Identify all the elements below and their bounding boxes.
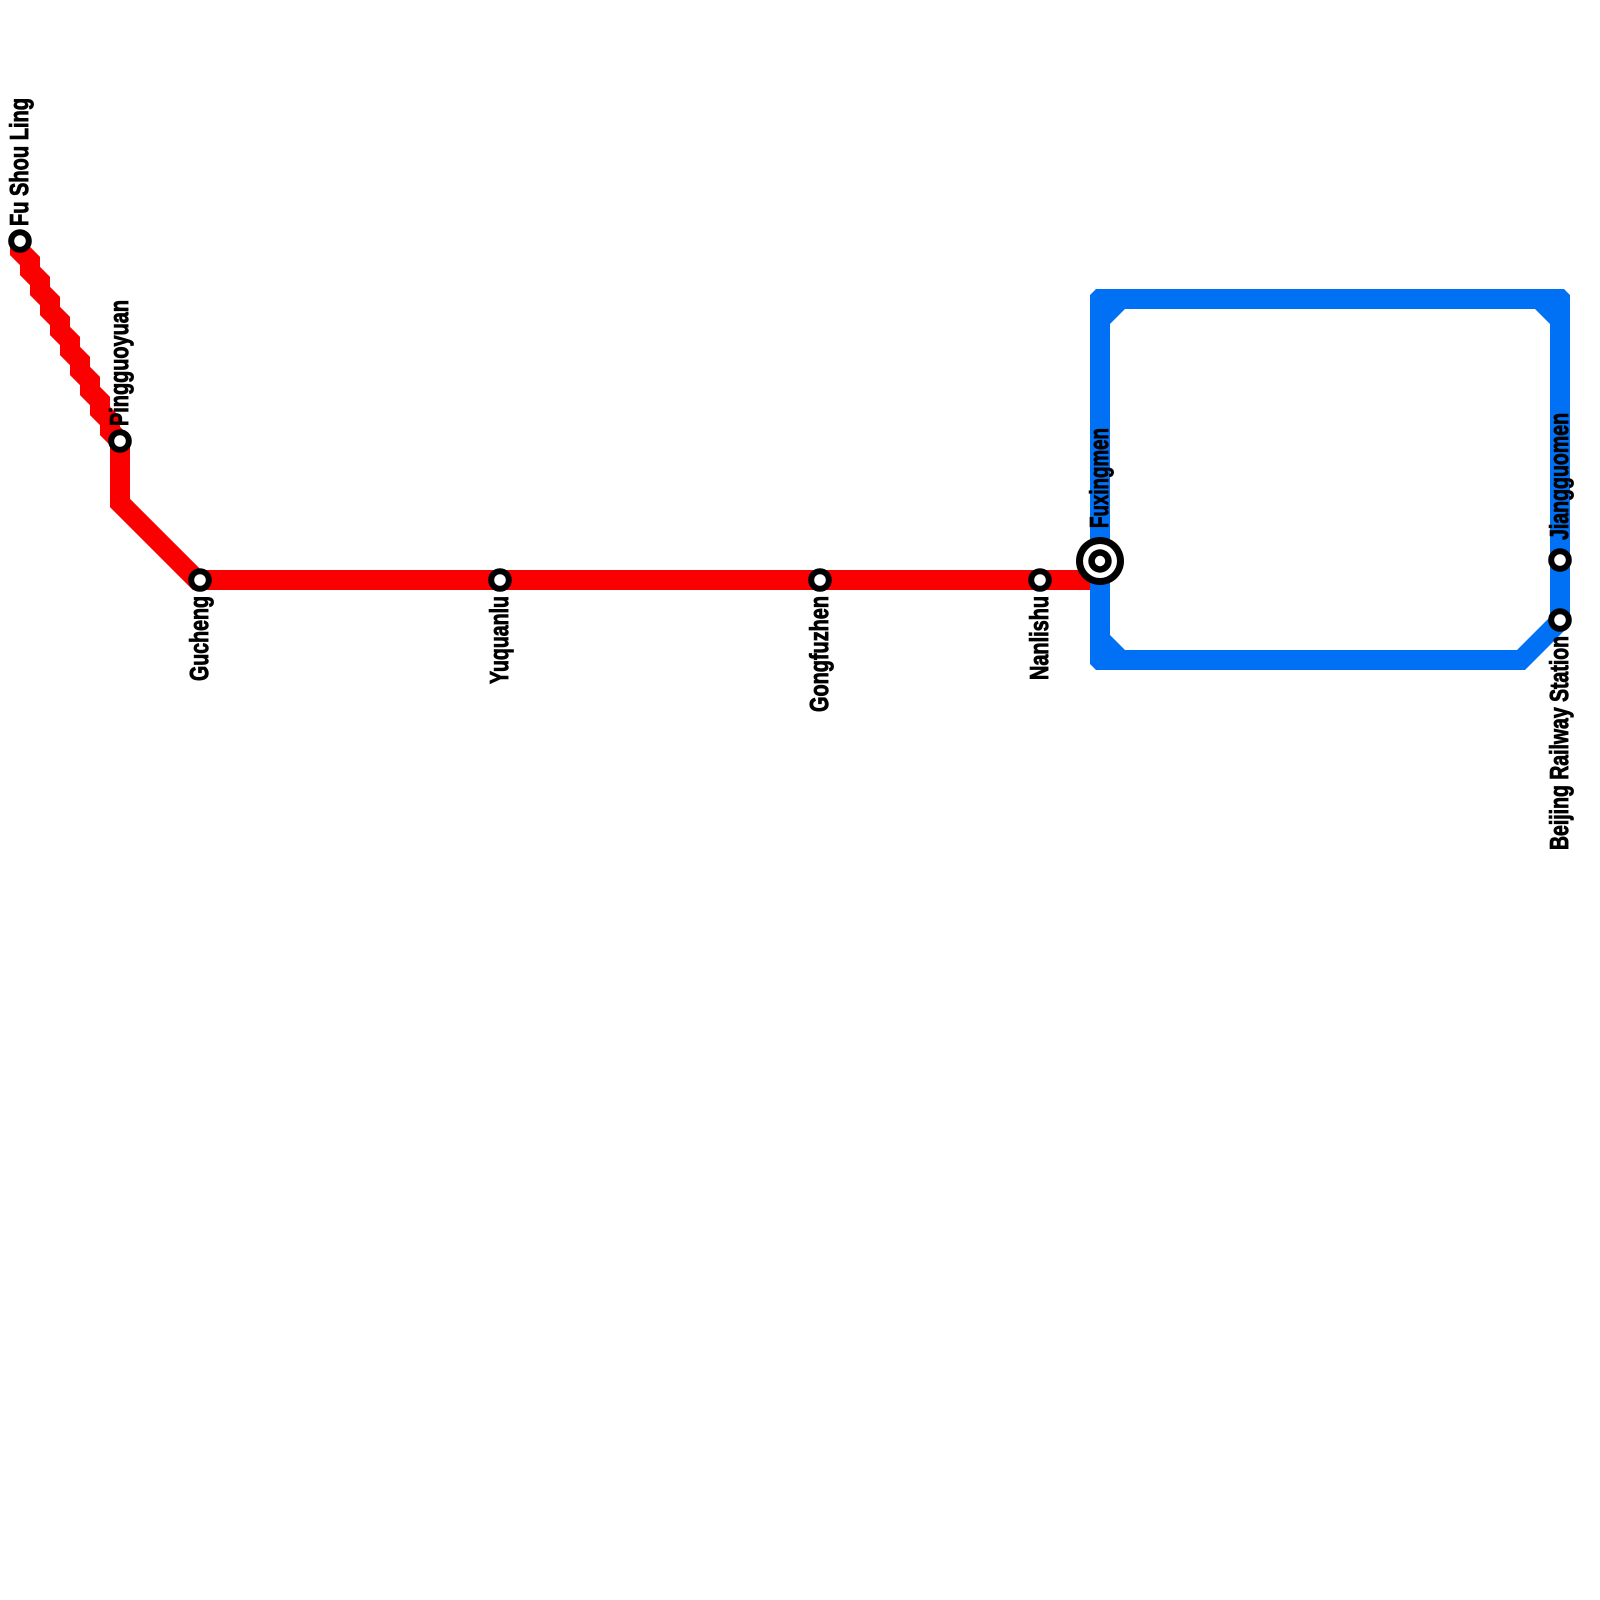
svg-text:Pingguoyuan: Pingguoyuan (104, 300, 134, 426)
svg-text:Beijing Railway Station: Beijing Railway Station (1544, 636, 1574, 850)
svg-text:Gucheng: Gucheng (184, 596, 214, 681)
red line 1 (20, 241, 1100, 580)
station Gongfuzhen (811, 571, 829, 589)
blue line 2 loop (1090, 289, 1570, 670)
station Nanlishu (1031, 571, 1049, 589)
interchange Fuxingmen (1076, 537, 1124, 585)
svg-text:Fuxingmen: Fuxingmen (1084, 428, 1114, 528)
station Pingguoyuan (111, 432, 129, 450)
station Jiangguomen (1551, 551, 1569, 569)
svg-text:Jiangguomen: Jiangguomen (1544, 413, 1574, 540)
station Gucheng (191, 571, 209, 589)
svg-text:Nanlishu: Nanlishu (1024, 596, 1054, 680)
station Yuquanlu (491, 571, 509, 589)
station Beijing Railway Station (1551, 611, 1569, 629)
svg-text:Gongfuzhen: Gongfuzhen (804, 596, 834, 712)
svg-text:Yuquanlu: Yuquanlu (484, 596, 514, 684)
station Fu Shou Ling (11, 232, 29, 250)
svg-text:Fu Shou Ling: Fu Shou Ling (4, 98, 34, 226)
